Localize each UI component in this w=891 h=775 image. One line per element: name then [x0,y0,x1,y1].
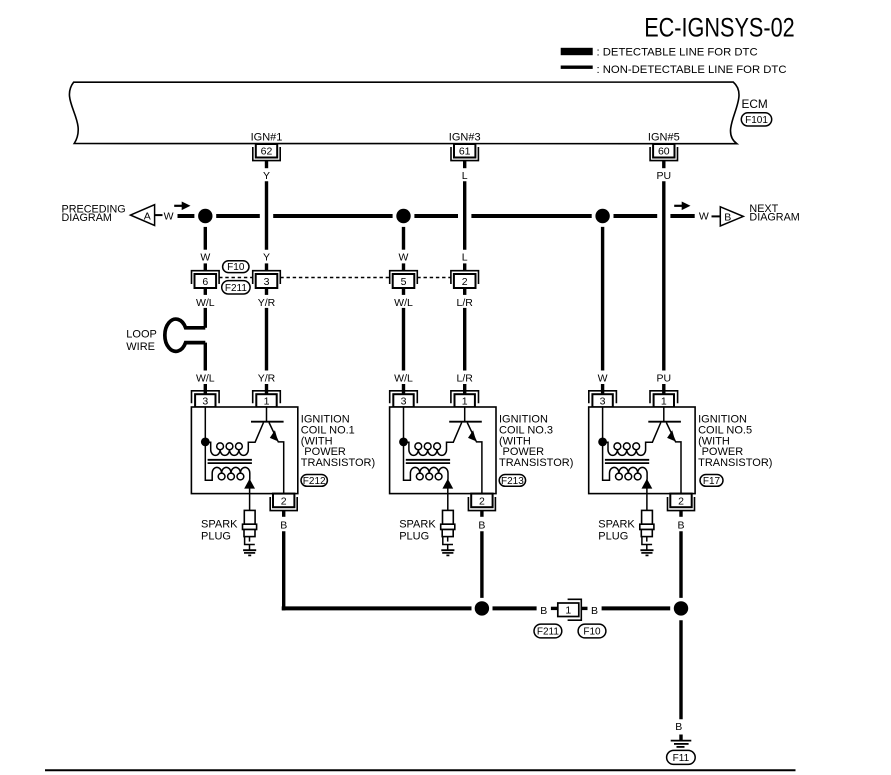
preceding diagram label [62,203,126,224]
coil 3 pin 1 [451,391,479,408]
bottom bus stub into inline connector [551,607,558,610]
wire W from dot B [402,227,405,250]
svg-text:Y/R: Y/R [258,297,276,309]
ignition coil NO.5 box [589,407,695,494]
svg-text:B: B [540,605,547,617]
wire B from coil 1 pin 2 upper [282,511,285,517]
wire W/L col3 [402,288,405,371]
label W at preceding [164,211,174,223]
junction dot C [595,209,609,223]
svg-text:3: 3 [264,276,270,288]
label Y/R col2 lower [258,373,276,385]
ECM pin 62 [253,144,280,161]
legend non-detectable line sample [561,66,593,69]
coil 1 spark output arrow [244,479,255,494]
ECM connector F101 [741,113,771,126]
svg-text:1: 1 [661,396,667,408]
wire stub to connector 6 [204,263,207,271]
svg-text:EC-IGNSYS-02: EC-IGNSYS-02 [644,12,795,42]
svg-text:B: B [591,605,598,617]
coil 3 primary winding [407,442,450,455]
svg-text:B: B [675,721,682,733]
connector F212 [301,475,327,487]
svg-text:Y/R: Y/R [258,373,276,385]
wire stub col3 to coil pin [402,384,405,395]
wire W/L col1 lower [204,343,207,371]
connector F17 [700,475,723,487]
svg-text:60: 60 [658,146,670,158]
transistor Q1 emitter leg with arrow [269,423,284,494]
svg-text:PU: PU [657,170,672,182]
spark plug wire coil 3 [447,494,449,511]
svg-text:W/L: W/L [394,297,413,309]
connector 2 [451,271,479,288]
svg-text:W: W [200,251,210,263]
transistor Q5 base bar [648,421,681,423]
svg-text:WIRE: WIRE [126,341,155,353]
off-page arrow A [131,205,163,226]
bottom bus segment 2 [602,606,671,610]
coil 3 spark output arrow [442,479,453,494]
ECM label [742,97,768,111]
svg-text:A: A [144,210,151,222]
svg-text:Y: Y [263,170,270,182]
coil 1 internal junction dot [201,438,210,447]
coil 3 internal wire from pin 3 [403,407,405,442]
ECM pin 60 [650,144,677,161]
label L/R col4 upper [457,297,474,309]
svg-text:2: 2 [678,496,684,508]
wire PU from ECM pin 60 [662,161,665,371]
svg-text:3: 3 [401,396,407,408]
label B right of inline connector [591,605,598,617]
label L/R col4 lower [457,373,474,385]
label W/L col3 lower [394,373,413,385]
label W/L col1 lower [196,373,215,385]
ECM pin IGN#3 label [449,131,481,143]
wire stub to connector 3 [265,263,268,271]
coil 3 pin 3 [390,391,418,408]
bottom bus stub out of inline connector [582,607,588,610]
spark plug ground coil 5 [640,550,653,555]
wire Y from ECM pin 62 [265,161,268,250]
svg-text:F10: F10 [583,627,601,638]
svg-text:L/R: L/R [457,373,474,385]
svg-text:: DETECTABLE LINE FOR DTC: : DETECTABLE LINE FOR DTC [597,47,758,59]
junction dot A [198,209,212,223]
transistor Q3 collector wire [464,407,466,422]
bus wire segment 2 [216,214,260,218]
label Y col2 [263,251,270,263]
ground stub [679,735,682,741]
svg-text:1: 1 [462,396,468,408]
coil 5 pin 3 [589,391,617,408]
legend detectable text [597,47,758,59]
svg-text:PU: PU [657,373,672,385]
junction dot D [475,601,489,615]
connector F211 [222,281,250,294]
coil 3 internal junction dot [399,438,408,447]
connector F10 bottom [578,624,606,638]
bottom bus segment 1 [282,606,472,610]
connector 6 [192,271,220,288]
wire B from coil 3 pin 2 upper [480,511,483,517]
bus wire segment 4 [414,214,458,218]
coil 3 secondary winding [404,442,449,480]
wire stub to connector 2 [463,263,466,271]
connector F211 bottom [534,624,562,638]
label B col pin2 coil 5 [677,519,684,531]
svg-text:W: W [164,211,174,223]
wire B from coil 1 pin 2 to bottom bus [282,531,285,610]
coil 1 secondary winding [205,442,250,480]
legend non-detectable text [597,64,787,76]
ignition coil NO.1 label [301,414,375,470]
svg-text:F11: F11 [673,753,690,764]
coil 1 pin 3 [192,391,220,408]
wire stub col1 to coil pin [204,384,207,395]
dashed link 3-5 [280,277,389,279]
ignition coil NO.3 box [390,407,496,494]
spark plug ground coil 3 [441,550,454,555]
wire L/R col4 [463,288,466,371]
junction dot B [396,209,410,223]
svg-text:L: L [462,170,468,182]
label W/L col1 upper [196,297,215,309]
wire stub col4 to coil pin [463,384,466,395]
label B col pin2 coil 3 [478,519,485,531]
spark plug wire coil 1 [249,494,251,511]
label W col1 [200,251,210,263]
coil 5 pin 1 [650,391,678,408]
svg-text:Y: Y [263,251,270,263]
svg-text:F17: F17 [703,476,721,487]
wire stub col6 to coil pin [662,384,665,395]
spark plug symbol coil 3 [441,510,455,550]
spark plug symbol coil 5 [640,510,654,550]
svg-text:TRANSISTOR): TRANSISTOR) [698,457,772,469]
coil 5 internal junction dot [598,438,607,447]
label W at next [699,211,709,223]
ignition coil NO.1 box [191,407,297,494]
label L [462,170,468,182]
svg-text:1: 1 [264,396,270,408]
wire B from coil 3 pin 2 to bottom bus [480,531,483,598]
ECM pin IGN#1 label [251,131,283,143]
title EC-IGNSYS-02 [644,12,795,42]
spark plug label coil 5 [598,519,635,543]
svg-text:IGN#3: IGN#3 [449,131,481,143]
wire L from ECM pin 61 [463,161,466,250]
coil 5 internal wire from pin 3 [602,407,604,442]
wire Y/R col2 [265,288,268,371]
wire stub to connector 5 [402,263,405,271]
transistor Q5 collector wire [663,407,665,422]
svg-text:6: 6 [202,276,208,288]
svg-text:TRANSISTOR): TRANSISTOR) [499,457,573,469]
coil 5 primary winding [606,442,649,455]
transistor Q3 left leg [448,423,462,443]
svg-text:ECM: ECM [742,97,768,111]
coil 1 internal wire from pin 3 [204,407,206,442]
svg-text:IGN#1: IGN#1 [251,131,283,143]
label W col5 lower [598,373,608,385]
arrow right at next [674,202,690,211]
svg-text:SPARK: SPARK [598,519,635,531]
svg-text:F211: F211 [225,283,247,294]
label PU col6 lower [657,373,672,385]
svg-text:62: 62 [261,146,273,158]
svg-text:F213: F213 [501,476,524,487]
ECM box U1 [69,82,739,144]
dashed link 5-2 [417,277,451,279]
svg-text:3: 3 [202,396,208,408]
arrow right at preceding [174,202,190,211]
transistor Q5 emitter leg with arrow [666,423,681,494]
wire W from dot A [204,227,207,250]
label B left of inline connector [540,605,547,617]
svg-text:1: 1 [565,605,571,617]
svg-text:2: 2 [479,496,485,508]
label Y [263,170,270,182]
wire W from dot C [601,227,604,371]
label W/L col3 upper [394,297,413,309]
wire B to ground [679,620,682,719]
svg-text:L: L [462,251,468,263]
svg-text:W: W [399,251,409,263]
connector F11 [667,750,696,764]
svg-text:2: 2 [462,276,468,288]
loop wire [165,319,205,351]
next diagram label [749,203,799,224]
ECM pin IGN#5 label [648,131,680,143]
bottom border [45,769,796,771]
svg-text:2: 2 [281,496,287,508]
junction dot E [674,601,688,615]
bus wire segment 6 [614,214,658,218]
dashed link 6-3 [219,277,253,279]
wire stub col2 to coil pin [265,384,268,395]
svg-text:F212: F212 [303,476,326,487]
legend detectable line sample [561,48,593,55]
svg-text:F10: F10 [227,262,245,273]
coil 5 secondary winding [603,442,648,480]
svg-text:W: W [598,373,608,385]
svg-text:B: B [478,519,485,531]
connector 5 [390,271,418,288]
svg-text:W/L: W/L [394,373,413,385]
svg-text:TRANSISTOR): TRANSISTOR) [301,457,375,469]
ignition coil NO.5 label [698,414,772,470]
svg-text:W: W [699,211,709,223]
svg-text:W/L: W/L [196,297,215,309]
coil 5 pin 2 [668,494,695,511]
coil 5 spark output arrow [642,479,653,494]
coil 1 primary winding [209,442,252,455]
label PU [657,170,672,182]
spark plug wire coil 5 [646,494,648,511]
transistor Q1 left leg [250,423,264,443]
svg-text:L/R: L/R [457,297,474,309]
transistor Q3 emitter leg with arrow [467,423,482,494]
ground symbol [671,741,692,747]
label L col4 [462,251,468,263]
wire W/L col1 upper [204,288,207,328]
spark plug symbol coil 1 [243,510,257,550]
off-page arrow B [712,207,744,226]
label B at ground [675,721,682,733]
svg-text:SPARK: SPARK [399,519,436,531]
coil 3 pin 2 [468,494,495,511]
spark plug label coil 3 [399,519,436,543]
coil 1 pin 1 [253,391,281,408]
bus wire segment 1 [178,214,195,218]
inline connector 1 [558,599,582,620]
coil 3 core [406,460,450,463]
svg-text:PLUG: PLUG [598,531,628,543]
svg-text:61: 61 [459,146,471,158]
svg-text:B: B [724,211,731,223]
connector F213 [499,475,525,487]
coil 1 pin 2 [270,494,297,511]
svg-text:LOOP: LOOP [126,328,157,340]
svg-text:DIAGRAM: DIAGRAM [62,212,112,224]
svg-text:W/L: W/L [196,373,215,385]
svg-text:5: 5 [401,276,407,288]
transistor Q3 base bar [449,421,482,423]
wire B from coil 5 pin 2 to bottom bus [679,531,682,598]
label B col pin2 coil 1 [280,519,287,531]
transistor Q5 left leg [647,423,661,443]
wire stub col5 to coil pin [601,384,604,395]
bottom bus segment 1b [493,606,537,610]
coil 5 core [605,460,649,463]
label W col3 [399,251,409,263]
svg-text:: NON-DETECTABLE LINE FOR DTC: : NON-DETECTABLE LINE FOR DTC [597,64,787,76]
svg-text:3: 3 [600,396,606,408]
svg-text:PLUG: PLUG [201,531,231,543]
svg-text:SPARK: SPARK [201,519,238,531]
svg-text:IGN#5: IGN#5 [648,131,680,143]
svg-text:PLUG: PLUG [399,531,429,543]
svg-text:F101: F101 [745,115,768,126]
bus wire segment 3 [273,214,392,218]
transistor Q1 collector wire [266,407,268,422]
bus wire segment 5 [471,214,591,218]
connector F10 [223,261,249,273]
svg-text:B: B [677,519,684,531]
connector 3 [253,271,281,288]
label Y/R col2 upper [258,297,276,309]
ignition coil NO.3 label [499,414,573,470]
ECM pin 61 [451,144,478,161]
wire B from coil 5 pin 2 upper [679,511,682,517]
spark plug label coil 1 [201,519,238,543]
svg-text:F211: F211 [537,627,559,638]
loop wire label [126,328,157,352]
svg-text:B: B [280,519,287,531]
spark plug ground coil 1 [243,550,256,555]
svg-text:DIAGRAM: DIAGRAM [749,212,799,224]
coil 1 core [208,460,252,463]
transistor Q1 base bar [251,421,284,423]
bus wire segment 7 [670,214,694,218]
